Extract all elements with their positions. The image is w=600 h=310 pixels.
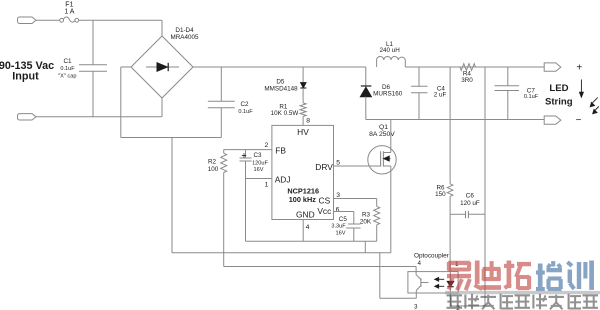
resistor R4 xyxy=(460,64,476,85)
svg-text:2: 2 xyxy=(265,142,269,149)
capacitor C2 xyxy=(208,67,253,138)
fuse F1 xyxy=(60,2,79,23)
svg-text:MURS160: MURS160 xyxy=(373,91,403,98)
svg-text:D5: D5 xyxy=(276,79,285,86)
optocoupler U2 box xyxy=(408,252,460,310)
wire bridge top vertex to top rail xyxy=(161,20,163,36)
inductor L1 xyxy=(377,41,406,67)
op IC U1 NCP1216 box xyxy=(272,125,334,219)
wire DC-minus rail to rail A xyxy=(171,138,173,253)
svg-text:Optocoupler: Optocoupler xyxy=(414,252,450,259)
wire rail to R6 xyxy=(449,67,451,184)
svg-text:6: 6 xyxy=(336,206,340,213)
capacitor C4 xyxy=(411,67,447,120)
capacitor C7 xyxy=(495,67,539,120)
svg-text:120 uF: 120 uF xyxy=(460,200,480,207)
capacitor C6 xyxy=(450,193,485,219)
ground rail (IC) xyxy=(246,240,377,242)
svg-text:0.1uF: 0.1uF xyxy=(60,66,75,72)
svg-text:3.3uF: 3.3uF xyxy=(331,224,346,230)
svg-text:120uF: 120uF xyxy=(252,160,268,166)
pin 2 label xyxy=(265,142,269,149)
svg-text:16V: 16V xyxy=(254,167,264,173)
wire R6 to C6 node xyxy=(449,196,451,214)
output terminal - xyxy=(544,115,581,126)
svg-text:GND: GND xyxy=(296,209,315,219)
svg-text:3R0: 3R0 xyxy=(461,77,473,84)
svg-text:1: 1 xyxy=(265,182,269,189)
wire sense return vertical xyxy=(484,67,486,306)
svg-text:C3: C3 xyxy=(253,152,262,159)
opto light arrows xyxy=(435,278,444,289)
wire GND-rail to rail A link xyxy=(364,241,366,253)
bridge rectifier D1-D4 xyxy=(131,27,199,98)
rail L1 to output xyxy=(405,66,544,68)
svg-text:LED: LED xyxy=(549,83,568,94)
capacitor C1 xyxy=(58,20,107,117)
svg-text:1 A: 1 A xyxy=(64,9,74,16)
svg-text:4: 4 xyxy=(417,260,421,267)
svg-text:String: String xyxy=(545,96,573,107)
resistor R2 xyxy=(208,150,227,174)
svg-text:100: 100 xyxy=(208,166,219,173)
pin 1 label xyxy=(265,182,269,189)
svg-text:−: − xyxy=(576,115,582,126)
resistor R3 xyxy=(360,206,380,225)
wire fuse to bridge-top node xyxy=(79,19,162,21)
svg-text:C5: C5 xyxy=(339,216,348,223)
svg-text:CS: CS xyxy=(319,196,331,206)
input terminal top (J1-1) xyxy=(18,17,37,24)
svg-text:FB: FB xyxy=(275,146,286,156)
label 90-135 Vac Input xyxy=(0,60,54,82)
wire R2 bottom to optocoupler pin 4 xyxy=(224,173,416,267)
svg-text:0.1uF: 0.1uF xyxy=(524,94,539,100)
svg-text:150: 150 xyxy=(435,191,446,198)
resistor R6 xyxy=(435,184,453,198)
label LED String xyxy=(545,83,573,107)
svg-text:R2: R2 xyxy=(208,159,217,166)
svg-text:10K 0.5W: 10K 0.5W xyxy=(271,110,299,117)
wire bottom rail input to bridge xyxy=(36,98,162,117)
svg-text:C6: C6 xyxy=(466,193,475,200)
switch node rail xyxy=(366,119,544,121)
svg-text:+: + xyxy=(576,63,582,74)
diode D6 xyxy=(360,67,402,120)
wire FB pin 2 xyxy=(224,149,272,151)
svg-text:4: 4 xyxy=(306,224,310,231)
svg-text:Q1: Q1 xyxy=(379,124,388,131)
wire C6 node to opto pin 1 xyxy=(449,214,451,271)
wire opto pin 2 loop xyxy=(450,293,485,306)
svg-text:C2: C2 xyxy=(240,101,249,108)
svg-text:8: 8 xyxy=(306,118,310,125)
wire CS pin 3 to R3 xyxy=(334,199,377,207)
svg-text:240 uH: 240 uH xyxy=(379,47,400,54)
LED symbol arrows xyxy=(590,98,599,114)
resistor R1 xyxy=(271,103,306,117)
output terminal + xyxy=(544,63,582,74)
capacitor C3 (polarized) xyxy=(240,150,269,242)
svg-text:R3: R3 xyxy=(362,211,371,218)
svg-text:ADJ: ADJ xyxy=(275,175,291,185)
svg-text:100 kHz: 100 kHz xyxy=(289,195,317,204)
wire rail A to opto pin 3 xyxy=(380,253,417,298)
svg-text:Vcc: Vcc xyxy=(317,206,331,216)
svg-text:2 uF: 2 uF xyxy=(434,91,447,98)
wire R3 bottom to GND rail xyxy=(376,225,378,242)
rail A (primary ground) xyxy=(172,252,391,254)
transistor Q1 (MOSFET) xyxy=(368,124,396,174)
svg-text:MMSD4148: MMSD4148 xyxy=(264,86,298,93)
wire terminal-top to fuse xyxy=(36,19,60,21)
wire Vcc pin 6 to C5 xyxy=(334,212,354,225)
wire ADJ pin 1 xyxy=(246,178,272,180)
LED current arrow xyxy=(580,80,584,98)
svg-text:F1: F1 xyxy=(65,2,73,9)
watermark underline band xyxy=(445,291,600,294)
pin 4 label xyxy=(306,224,310,231)
svg-text:8A 250V: 8A 250V xyxy=(369,131,395,138)
watermark gray text shepin he tianxian sheji zhuanjia xyxy=(447,294,599,310)
wire Q1 drain xyxy=(390,120,392,153)
wire GND pin 4 xyxy=(302,220,304,242)
svg-text:DRV: DRV xyxy=(315,162,333,172)
svg-text:20K: 20K xyxy=(360,219,372,226)
svg-text:C1: C1 xyxy=(63,58,72,65)
capacitor C5 xyxy=(331,216,360,241)
svg-text:16V: 16V xyxy=(336,230,346,236)
pin 3 label xyxy=(336,192,340,199)
svg-text:Input: Input xyxy=(12,70,39,82)
opto LED xyxy=(447,272,453,293)
svg-text:HV: HV xyxy=(297,127,309,137)
pin 6 label xyxy=(336,206,340,213)
wire bridge left vertex to DC- rail xyxy=(121,67,222,138)
svg-text:MRA4005: MRA4005 xyxy=(170,34,198,41)
wire Q1 source to rail A xyxy=(390,166,392,253)
svg-text:"X" cap: "X" cap xyxy=(58,73,76,79)
opto transistor xyxy=(416,267,428,294)
input terminal bottom (J1-2) xyxy=(18,114,37,120)
watermark red/blue text yidituo peixun xyxy=(447,261,592,291)
svg-text:D1-D4: D1-D4 xyxy=(175,27,194,34)
wire R1 to HV pin 8 xyxy=(303,116,310,125)
svg-text:0.1uF: 0.1uF xyxy=(238,109,253,115)
svg-text:3: 3 xyxy=(414,304,418,310)
wire DRV pin 5 to gate xyxy=(334,165,381,167)
pin 5 label xyxy=(336,160,340,167)
diode D5 xyxy=(264,67,306,103)
wire bridge right vertex rail (+ node) xyxy=(193,66,366,68)
